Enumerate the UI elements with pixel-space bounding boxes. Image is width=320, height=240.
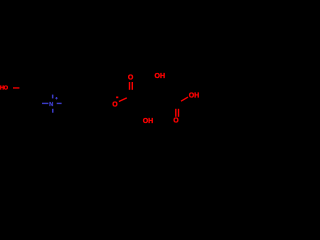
svg-text:O: O xyxy=(112,102,118,109)
svg-text:OH: OH xyxy=(155,73,166,80)
bond N-CH3 bottom half xyxy=(52,109,54,113)
svg-text:OH: OH xyxy=(189,93,200,100)
svg-text:HO: HO xyxy=(0,85,9,91)
svg-text:N: N xyxy=(49,102,53,108)
svg-text:OH: OH xyxy=(143,118,154,125)
charge + on N xyxy=(55,98,57,99)
svg-text:O: O xyxy=(173,118,179,125)
bond N-C1 upper half (choline chain) xyxy=(52,95,54,99)
bond N-CH3 left half xyxy=(42,103,48,104)
minus charge dot xyxy=(116,97,118,99)
bond O-C2 red half (choline) xyxy=(13,87,19,88)
C1'=O double bond red halves xyxy=(129,82,130,90)
bond N-CH3 right half xyxy=(57,103,62,104)
bond O(-)-C1' red half xyxy=(119,98,127,102)
svg-text:O: O xyxy=(128,74,134,81)
C4'=O double bond red halves xyxy=(175,109,176,117)
bond C4'-OH red half xyxy=(181,97,188,101)
